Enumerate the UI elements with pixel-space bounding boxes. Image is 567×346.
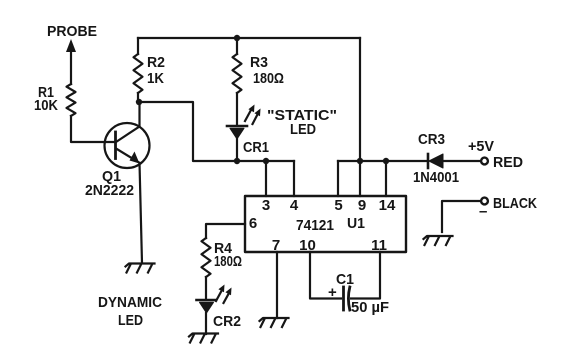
svg-text:–: – — [479, 203, 487, 220]
svg-text:74121: 74121 — [296, 217, 334, 234]
transistor Q1 — [105, 123, 150, 168]
svg-text:10K: 10K — [34, 98, 58, 114]
svg-text:6: 6 — [249, 215, 257, 232]
capacitor C1 — [344, 287, 350, 310]
wire pin 9 stub — [359, 161, 361, 196]
wire R4 to CR2 — [205, 277, 207, 299]
wire R3 top lead — [236, 38, 238, 54]
wire pin 3 stub — [265, 161, 267, 196]
wire pin 5 stub — [337, 161, 339, 196]
wire junction to IC pin 4 (step) — [139, 102, 294, 161]
wire +5V feed line — [338, 160, 427, 162]
svg-text:LED: LED — [290, 121, 316, 138]
svg-text:LED: LED — [118, 312, 143, 329]
wire R2 top lead — [137, 38, 139, 54]
svg-text:CR2: CR2 — [213, 313, 241, 330]
svg-text:+5V: +5V — [468, 138, 494, 155]
node PROBE arrowhead — [66, 39, 76, 52]
svg-text:2N2222: 2N2222 — [85, 182, 134, 199]
svg-text:3: 3 — [262, 197, 270, 214]
LED CR1 — [227, 105, 261, 140]
diode CR3 — [428, 154, 443, 168]
wire R1 to Q1 base — [71, 116, 114, 142]
resistor R3 — [233, 54, 242, 93]
svg-text:R3: R3 — [250, 55, 268, 71]
wire pin 7 to ground — [276, 252, 278, 318]
wire R2 bottom lead — [137, 93, 139, 102]
svg-text:+: + — [328, 284, 337, 301]
wire BLACK terminal to ground — [442, 201, 481, 232]
svg-text:R2: R2 — [147, 55, 165, 71]
wire R3 to CR1 — [236, 93, 238, 125]
svg-text:1K: 1K — [147, 71, 164, 87]
svg-text:C1: C1 — [336, 271, 354, 288]
svg-text:5: 5 — [334, 197, 342, 214]
LED CR2 — [197, 285, 232, 314]
wire CR3 to RED terminal — [443, 160, 481, 162]
ground (CR2) — [189, 334, 218, 343]
wire right rail down — [359, 38, 361, 161]
node pin9 junction — [357, 158, 363, 164]
ground (BLACK lead) — [424, 236, 453, 245]
svg-text:10: 10 — [299, 237, 316, 254]
wire top +V rail — [138, 37, 360, 39]
wire CR1 cathode to rail — [236, 139, 238, 161]
wire pin 4 stub — [293, 161, 295, 196]
ground (pin 7) — [260, 318, 289, 327]
svg-text:RED: RED — [493, 154, 523, 171]
svg-text:14: 14 — [379, 197, 396, 214]
svg-text:1N4001: 1N4001 — [413, 170, 459, 186]
svg-text:PROBE: PROBE — [47, 23, 97, 40]
svg-text:4: 4 — [290, 197, 299, 214]
resistor R1 — [67, 84, 76, 116]
wire C1 to pin 11 — [351, 252, 380, 299]
svg-text:180Ω: 180Ω — [253, 71, 284, 87]
svg-text:DYNAMIC: DYNAMIC — [98, 294, 162, 311]
svg-text:50 µF: 50 µF — [351, 299, 389, 316]
wire PROBE arrow lead — [70, 49, 72, 84]
terminal BLACK — [481, 198, 488, 205]
wire pin 14 stub — [385, 161, 387, 196]
wire Q1 emitter to ground — [140, 163, 143, 263]
svg-text:U1: U1 — [347, 215, 365, 232]
svg-text:CR3: CR3 — [418, 132, 445, 148]
svg-text:180Ω: 180Ω — [214, 254, 242, 270]
wire pin 6 stub — [206, 224, 245, 238]
svg-text:BLACK: BLACK — [493, 195, 537, 212]
ground (Q1 emitter) — [126, 264, 155, 273]
op-amp U1 74121 IC body — [245, 196, 406, 252]
wire CR2 cathode to ground — [205, 313, 207, 334]
svg-text:9: 9 — [358, 197, 366, 214]
wire pin 10 to C1 — [310, 252, 341, 299]
resistor R2 — [134, 54, 143, 93]
node R2-collector junction — [136, 99, 142, 105]
terminal RED (+5V) — [481, 158, 488, 165]
node pin14 junction — [383, 158, 389, 164]
node pin3 junction — [263, 158, 269, 164]
svg-text:11: 11 — [371, 237, 387, 254]
node CR1 junction — [234, 158, 240, 164]
svg-text:7: 7 — [272, 237, 280, 254]
svg-text:CR1: CR1 — [243, 140, 269, 156]
wire Q1 collector riser — [138, 102, 140, 126]
node R3 top junction — [234, 35, 240, 41]
resistor R4 — [202, 238, 211, 277]
